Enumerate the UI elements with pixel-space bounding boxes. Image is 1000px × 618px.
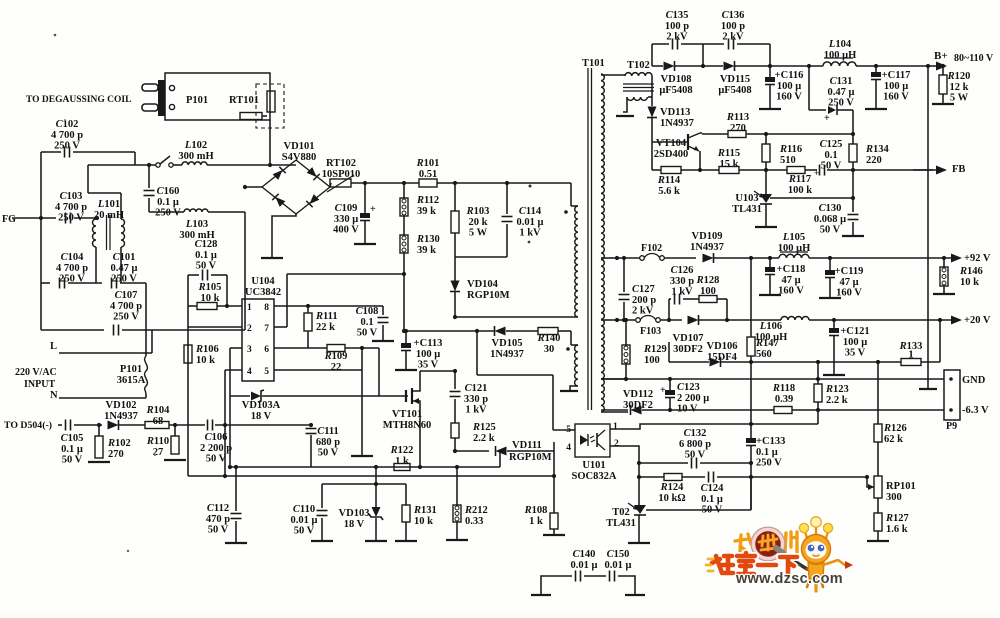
svg-text:100: 100	[644, 355, 660, 366]
wire rectifier line y66	[651, 44, 653, 66]
svg-text:5.6 k: 5.6 k	[658, 186, 680, 197]
watermark dzsc logo	[706, 517, 853, 591]
svg-text:35 V: 35 V	[418, 360, 439, 371]
svg-text:2.2 k: 2.2 k	[473, 433, 495, 444]
node B+ output	[930, 65, 938, 67]
svg-text:50 V: 50 V	[208, 525, 229, 536]
svg-text:220 V/AC: 220 V/AC	[15, 367, 57, 378]
svg-text:0.01 μ: 0.01 μ	[571, 560, 598, 571]
svg-text:R108: R108	[524, 505, 548, 516]
svg-text:R120: R120	[947, 71, 971, 82]
svg-text:2: 2	[614, 439, 619, 449]
svg-text:C131: C131	[830, 76, 853, 87]
svg-text:R131: R131	[413, 505, 437, 516]
svg-text:L103: L103	[185, 219, 208, 230]
svg-text:R147: R147	[755, 338, 779, 349]
svg-text:μF5408: μF5408	[718, 85, 751, 96]
svg-text:10 V: 10 V	[677, 404, 698, 415]
svg-text:50 V: 50 V	[685, 450, 706, 461]
svg-text:R117: R117	[788, 174, 811, 185]
svg-text:SOC832A: SOC832A	[572, 471, 617, 482]
svg-text:U101: U101	[582, 460, 605, 471]
svg-text:R101: R101	[416, 158, 440, 169]
svg-text:UC3842: UC3842	[245, 287, 281, 298]
svg-text:4: 4	[247, 367, 252, 377]
svg-text:270: 270	[730, 123, 746, 134]
svg-text:C112: C112	[207, 503, 229, 514]
svg-text:VD112: VD112	[623, 389, 653, 400]
svg-text:R106: R106	[195, 344, 219, 355]
node FB output	[913, 169, 938, 171]
svg-text:330 p: 330 p	[670, 276, 694, 287]
svg-text:RGP10M: RGP10M	[467, 290, 510, 301]
svg-text:R113: R113	[726, 112, 749, 123]
svg-text:VT104: VT104	[656, 138, 687, 149]
svg-text:S4V880: S4V880	[282, 152, 316, 163]
svg-text:10 k: 10 k	[414, 516, 433, 527]
wire pin1 bus	[610, 424, 818, 429]
svg-text:1 k: 1 k	[529, 516, 543, 527]
svg-text:2 200 μ: 2 200 μ	[677, 393, 709, 404]
svg-text:C150: C150	[607, 549, 630, 560]
wire T02 feedback loop	[638, 511, 640, 513]
svg-text:R130: R130	[416, 234, 440, 245]
svg-text:470 p: 470 p	[206, 514, 230, 525]
svg-text:R114: R114	[657, 175, 681, 186]
svg-text:8: 8	[264, 303, 269, 313]
svg-text:7: 7	[264, 324, 269, 334]
svg-text:1N4937: 1N4937	[490, 349, 524, 360]
svg-text:C126: C126	[671, 265, 694, 276]
wire FB emitter line y170	[652, 169, 661, 171]
wire B+ sense drop	[926, 64, 930, 68]
svg-text:+C133: +C133	[756, 436, 785, 447]
svg-text:C124: C124	[701, 483, 725, 494]
transformer T101 primary winding	[570, 183, 572, 206]
svg-text:62 k: 62 k	[884, 434, 903, 445]
svg-text:1.6 k: 1.6 k	[886, 524, 908, 535]
svg-text:FB: FB	[952, 164, 965, 175]
svg-text:160 V: 160 V	[883, 92, 909, 103]
svg-text:C101: C101	[113, 252, 136, 263]
wire rail A y467	[230, 466, 500, 468]
svg-text:+: +	[824, 113, 830, 124]
svg-text:250 V: 250 V	[828, 98, 854, 109]
svg-text:VD102: VD102	[106, 400, 137, 411]
svg-text:160 V: 160 V	[776, 92, 802, 103]
svg-text:0.1 μ: 0.1 μ	[195, 250, 217, 261]
wire collector line y134	[702, 133, 728, 135]
wire C133 vertical	[750, 362, 752, 438]
svg-text:22 k: 22 k	[316, 322, 335, 333]
wire to bridge left	[244, 212, 246, 330]
svg-text:VD105: VD105	[492, 338, 523, 349]
wire pin4	[225, 369, 242, 371]
svg-text:50 V: 50 V	[318, 448, 339, 459]
wire sub loop	[322, 483, 406, 485]
connector P9	[944, 370, 960, 420]
svg-text:+20 V: +20 V	[964, 315, 991, 326]
wire pin7 to startup	[274, 326, 287, 328]
svg-text:0.1: 0.1	[360, 317, 373, 328]
svg-text:R123: R123	[825, 384, 849, 395]
svg-text:RGP10M: RGP10M	[509, 452, 552, 463]
svg-text:C108: C108	[356, 306, 379, 317]
svg-text:P101: P101	[186, 95, 208, 106]
wire B+ rail	[770, 65, 823, 67]
svg-text:560: 560	[756, 349, 772, 360]
svg-text:F103: F103	[640, 326, 661, 337]
svg-text:250 V: 250 V	[54, 141, 80, 152]
wire GND rail	[601, 378, 944, 380]
wire VD111 line	[455, 450, 489, 452]
svg-text:L101: L101	[97, 199, 120, 210]
svg-text:RT102: RT102	[326, 158, 356, 169]
svg-text:C110: C110	[293, 504, 315, 515]
svg-text:F102: F102	[641, 243, 662, 254]
svg-text:C103: C103	[60, 191, 83, 202]
svg-text:+: +	[660, 385, 666, 396]
svg-text:+C121: +C121	[840, 326, 869, 337]
svg-text:0.51: 0.51	[419, 169, 437, 180]
svg-text:300 mH: 300 mH	[178, 151, 213, 162]
svg-text:L102: L102	[184, 140, 207, 151]
wire gate drive	[378, 348, 380, 396]
svg-text:L104: L104	[828, 39, 852, 50]
svg-text:1N4937: 1N4937	[690, 242, 724, 253]
svg-text:510: 510	[780, 155, 796, 166]
svg-text:39 k: 39 k	[417, 206, 436, 217]
transformer T101 secondary winding	[601, 74, 604, 412]
svg-text:R115: R115	[717, 148, 740, 159]
svg-text:100 μ: 100 μ	[843, 337, 867, 348]
svg-text:GND: GND	[962, 375, 986, 386]
wire +20 rail	[615, 318, 619, 322]
svg-text:0.1 μ: 0.1 μ	[701, 494, 723, 505]
transformer T101 aux winding	[570, 331, 572, 345]
switch S	[156, 163, 160, 167]
svg-text:18 V: 18 V	[344, 519, 365, 530]
svg-text:R146: R146	[959, 266, 983, 277]
svg-text:RT101: RT101	[229, 95, 259, 106]
svg-text:100 k: 100 k	[788, 185, 812, 196]
svg-text:0.47 μ: 0.47 μ	[828, 87, 855, 98]
wire pin3	[230, 347, 242, 349]
svg-text:30DF2: 30DF2	[673, 344, 703, 355]
svg-text:C104: C104	[61, 252, 85, 263]
bridge negative to ground	[272, 214, 296, 257]
svg-text:4: 4	[566, 443, 571, 453]
svg-text:6: 6	[264, 345, 269, 355]
svg-text:VD107: VD107	[673, 333, 704, 344]
svg-text:100 μ: 100 μ	[416, 349, 440, 360]
svg-text:330 p: 330 p	[464, 394, 488, 405]
svg-text:270: 270	[108, 449, 124, 460]
svg-text:160 V: 160 V	[778, 286, 804, 297]
node +20V output	[934, 319, 953, 321]
svg-text:18 V: 18 V	[251, 411, 272, 422]
svg-text:100 p: 100 p	[665, 21, 689, 32]
wire pin5 ground	[274, 369, 362, 371]
svg-text:TO D504(-): TO D504(-)	[4, 420, 52, 431]
svg-text:3615A: 3615A	[117, 375, 146, 386]
svg-text:0.01 μ: 0.01 μ	[291, 515, 318, 526]
svg-text:+92 V: +92 V	[964, 253, 991, 264]
svg-text:VD103: VD103	[339, 508, 370, 519]
svg-text:1N4937: 1N4937	[660, 118, 694, 129]
svg-text:VD113: VD113	[660, 107, 690, 118]
wire pin8 line	[274, 305, 383, 307]
svg-text:VD111: VD111	[512, 440, 542, 451]
svg-text:B+: B+	[934, 50, 948, 62]
svg-text:T101: T101	[582, 58, 605, 69]
svg-text:VD108: VD108	[661, 74, 692, 85]
svg-text:100 μ: 100 μ	[884, 81, 908, 92]
svg-text:400 V: 400 V	[333, 225, 359, 236]
svg-text:0.1 μ: 0.1 μ	[756, 447, 778, 458]
svg-text:R122: R122	[390, 445, 414, 456]
wire main DC bus	[330, 183, 331, 187]
svg-text:300: 300	[886, 492, 902, 503]
svg-text:10 kΩ: 10 kΩ	[658, 493, 685, 504]
svg-text:R111: R111	[315, 311, 338, 322]
svg-text:C105: C105	[61, 433, 84, 444]
svg-text:R212: R212	[464, 505, 488, 516]
svg-text:C121: C121	[465, 383, 488, 394]
svg-text:C106: C106	[205, 432, 228, 443]
svg-text:1: 1	[613, 422, 618, 432]
svg-text:250 V: 250 V	[111, 274, 137, 285]
svg-text:+: +	[370, 204, 376, 215]
svg-text:R103: R103	[466, 206, 490, 217]
svg-text:30: 30	[544, 344, 555, 355]
svg-text:20 k: 20 k	[469, 217, 488, 228]
wire pin2	[610, 446, 639, 505]
wire snubber to primary	[453, 315, 457, 319]
svg-text:80~110 V: 80~110 V	[954, 53, 994, 64]
wire +20 to R133	[938, 318, 942, 322]
svg-text:L105: L105	[782, 232, 805, 243]
svg-text:0.1: 0.1	[824, 150, 837, 161]
svg-text:50 V: 50 V	[196, 261, 217, 272]
svg-text:250 V: 250 V	[756, 458, 782, 469]
svg-text:12 k: 12 k	[950, 82, 969, 93]
svg-text:1 k: 1 k	[395, 456, 409, 467]
wire clamp line y362	[669, 361, 709, 363]
wire R124 C124 line	[637, 475, 641, 479]
svg-text:VD104: VD104	[467, 279, 499, 290]
svg-text:0.068 μ: 0.068 μ	[814, 214, 846, 225]
svg-text:2 200 p: 2 200 p	[200, 443, 232, 454]
svg-text:N: N	[50, 390, 58, 401]
svg-text:4 700 p: 4 700 p	[110, 301, 142, 312]
svg-text:5: 5	[566, 425, 571, 435]
wire U103 ref line	[770, 197, 853, 199]
svg-text:P9: P9	[946, 421, 957, 432]
svg-text:1 kV: 1 kV	[465, 405, 487, 416]
svg-text:TL431: TL431	[606, 518, 636, 529]
svg-text:R105: R105	[198, 282, 222, 293]
svg-text:L: L	[50, 341, 57, 352]
svg-text:C114: C114	[519, 206, 542, 217]
svg-text:R110: R110	[146, 436, 169, 447]
svg-text:0.01 μ: 0.01 μ	[605, 560, 632, 571]
svg-text:C123: C123	[677, 382, 700, 393]
svg-text:0.1 μ: 0.1 μ	[157, 197, 179, 208]
svg-text:+C118: +C118	[777, 264, 806, 275]
svg-text:10 k: 10 k	[960, 277, 979, 288]
svg-text:R118: R118	[772, 383, 795, 394]
svg-text:50 V: 50 V	[820, 225, 841, 236]
svg-text:39 k: 39 k	[417, 245, 436, 256]
svg-text:100 μ: 100 μ	[777, 81, 801, 92]
svg-text:10SP010: 10SP010	[322, 169, 361, 180]
wire +92 rail	[615, 256, 619, 260]
svg-text:R125: R125	[472, 422, 496, 433]
svg-text:5: 5	[264, 367, 269, 377]
svg-text:250 V: 250 V	[155, 208, 181, 219]
svg-text:C127: C127	[632, 284, 655, 295]
svg-text:C109: C109	[335, 203, 358, 214]
svg-text:VD106: VD106	[707, 341, 738, 352]
svg-text:+C117: +C117	[882, 70, 911, 81]
wire rail B y476	[188, 475, 554, 477]
svg-text:22: 22	[331, 362, 342, 373]
svg-text:3: 3	[247, 345, 252, 355]
svg-text:+C116: +C116	[775, 70, 804, 81]
speck artifacts	[54, 34, 57, 37]
svg-text:INPUT: INPUT	[24, 379, 55, 390]
svg-text:6 800 p: 6 800 p	[679, 439, 711, 450]
svg-text:C130: C130	[819, 203, 842, 214]
svg-text:100 p: 100 p	[721, 21, 745, 32]
svg-text:R134: R134	[865, 144, 890, 155]
svg-text:50 V: 50 V	[206, 454, 227, 465]
svg-text:5 W: 5 W	[950, 93, 969, 104]
svg-text:L106: L106	[759, 321, 782, 332]
svg-text:220: 220	[866, 155, 882, 166]
svg-text:U103: U103	[735, 193, 758, 204]
svg-text:27: 27	[153, 447, 164, 458]
svg-text:1 kV: 1 kV	[519, 228, 541, 239]
svg-text:C160: C160	[157, 186, 180, 197]
svg-text:+: +	[814, 168, 819, 178]
svg-text:2SD400: 2SD400	[654, 149, 688, 160]
svg-text:50 V: 50 V	[294, 526, 315, 537]
svg-text:VD115: VD115	[720, 74, 750, 85]
svg-text:C102: C102	[56, 119, 79, 130]
svg-text:R116: R116	[779, 144, 802, 155]
svg-text:C111: C111	[317, 426, 339, 437]
wire startup feed to pin7	[287, 273, 404, 275]
svg-text:4 700 p: 4 700 p	[55, 202, 87, 213]
svg-text:C128: C128	[195, 239, 218, 250]
svg-text:-6.3 V: -6.3 V	[962, 405, 989, 416]
svg-text:2.2 k: 2.2 k	[826, 395, 848, 406]
svg-text:2: 2	[247, 324, 252, 334]
svg-text:C132: C132	[684, 428, 707, 439]
svg-text:680 p: 680 p	[316, 437, 340, 448]
svg-text:15 k: 15 k	[720, 159, 739, 170]
svg-text:200 p: 200 p	[632, 295, 656, 306]
svg-text:FG: FG	[2, 214, 16, 225]
svg-text:C135: C135	[666, 10, 689, 21]
svg-text:50 V: 50 V	[62, 455, 83, 466]
wire -6.3 rail	[601, 409, 628, 411]
svg-text:T02: T02	[612, 507, 630, 518]
svg-text:4 700 p: 4 700 p	[51, 130, 83, 141]
svg-text:47 μ: 47 μ	[839, 277, 858, 288]
svg-text:TL431: TL431	[732, 204, 762, 215]
svg-text:0.01 μ: 0.01 μ	[517, 217, 544, 228]
wire N-rail y283	[41, 282, 50, 284]
svg-text:R127: R127	[885, 513, 909, 524]
svg-text:+C119: +C119	[835, 266, 864, 277]
wire left rail	[40, 152, 42, 330]
svg-text:1N4937: 1N4937	[104, 411, 138, 422]
svg-text:μF5408: μF5408	[659, 85, 692, 96]
wire VD111 to rail	[499, 451, 501, 467]
svg-text:0.47 μ: 0.47 μ	[111, 263, 138, 274]
svg-text:www.dzsc.com: www.dzsc.com	[735, 571, 843, 587]
wire C123 top corner	[669, 361, 670, 363]
svg-text:R128: R128	[696, 275, 720, 286]
wire C113 VD105 line	[404, 330, 494, 332]
svg-text:0.39: 0.39	[775, 394, 793, 405]
wire pin6 output	[274, 347, 327, 349]
wire VD105 anode to opto	[475, 329, 479, 333]
svg-text:R112: R112	[416, 195, 439, 206]
svg-text:5 W: 5 W	[469, 228, 488, 239]
svg-text:R124: R124	[660, 482, 685, 493]
svg-text:50 V: 50 V	[357, 328, 378, 339]
svg-text:R104: R104	[146, 405, 171, 416]
svg-text:100 μH: 100 μH	[824, 50, 857, 61]
svg-text:C107: C107	[115, 290, 138, 301]
svg-text:35 V: 35 V	[845, 348, 866, 359]
svg-text:R129: R129	[643, 344, 667, 355]
svg-text:VD101: VD101	[284, 141, 315, 152]
svg-text:MTH8N60: MTH8N60	[383, 420, 431, 431]
svg-text:C125: C125	[820, 139, 843, 150]
svg-text:0.33: 0.33	[465, 516, 483, 527]
svg-text:R126: R126	[883, 423, 907, 434]
svg-text:RP101: RP101	[886, 481, 916, 492]
svg-text:0.1 μ: 0.1 μ	[61, 444, 83, 455]
svg-text:VT101: VT101	[392, 409, 422, 420]
svg-text:VD109: VD109	[692, 231, 723, 242]
svg-text:10 k: 10 k	[196, 355, 215, 366]
wire drain	[420, 370, 455, 372]
wire C102 right to switch line	[134, 152, 136, 165]
svg-text:2 kV: 2 kV	[632, 306, 654, 317]
svg-text:C136: C136	[722, 10, 745, 21]
svg-text:T102: T102	[627, 60, 650, 71]
svg-text:250 V: 250 V	[59, 274, 85, 285]
svg-text:C140: C140	[573, 549, 596, 560]
svg-text:1: 1	[247, 303, 252, 313]
connector P101	[165, 73, 270, 120]
svg-text:47 μ: 47 μ	[781, 275, 800, 286]
svg-text:R102: R102	[107, 438, 131, 449]
wire pin2	[188, 326, 242, 328]
svg-text:4 700 p: 4 700 p	[56, 263, 88, 274]
node +92V output	[934, 257, 953, 259]
svg-text:TO DEGAUSSING COIL: TO DEGAUSSING COIL	[26, 95, 131, 105]
svg-text:+C113: +C113	[414, 338, 443, 349]
svg-text:250 V: 250 V	[113, 312, 139, 323]
svg-text:P101: P101	[120, 364, 142, 375]
